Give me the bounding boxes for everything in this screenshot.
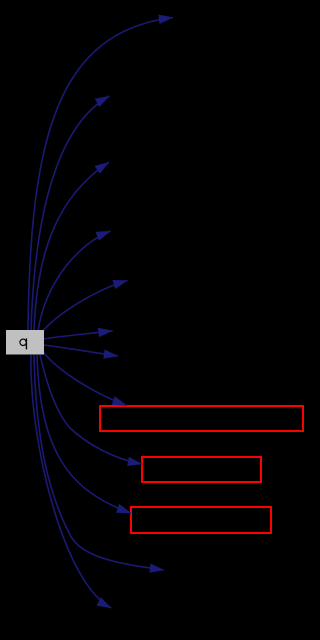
edge q->t1: [28, 18, 173, 332]
edge q->t11: [34, 355, 164, 570]
node q: [7, 331, 44, 355]
edge q->n3: [37, 355, 131, 513]
edge q->t3: [34, 162, 109, 331]
node n1 (red box, truncated label): [100, 406, 303, 431]
node n2 (red box, truncated label): [142, 457, 261, 482]
label q: [20, 338, 27, 349]
edge q->n2: [40, 355, 142, 464]
edge q->n1: [44, 352, 127, 406]
node n3 (red box, truncated label): [131, 507, 271, 533]
edge q->t7: [44, 345, 119, 356]
edge q->t6: [44, 331, 113, 339]
edge q->t5: [42, 281, 128, 333]
edge q->t2: [31, 96, 110, 331]
edge q->t12: [31, 355, 111, 608]
edge q->t4: [38, 231, 111, 331]
